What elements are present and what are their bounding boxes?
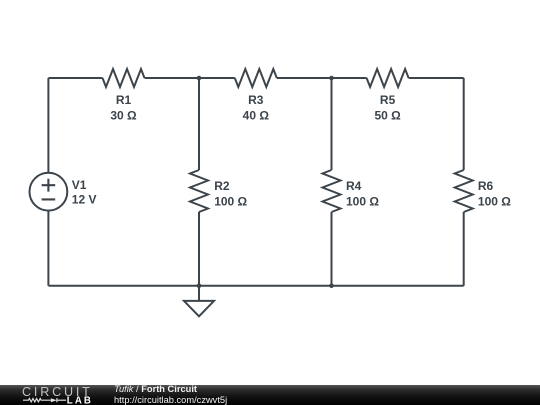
wire R6 top lead xyxy=(463,78,465,170)
resistor R5 xyxy=(367,69,409,87)
resistor R3 xyxy=(235,69,277,87)
svg-text:100 Ω: 100 Ω xyxy=(478,195,511,209)
svg-text:50 Ω: 50 Ω xyxy=(374,109,401,123)
svg-text:100 Ω: 100 Ω xyxy=(346,195,379,209)
ground xyxy=(184,286,214,317)
svg-text:40 Ω: 40 Ω xyxy=(243,109,270,123)
wire R2 top lead xyxy=(198,78,200,170)
wire top rail: R5 to right corner xyxy=(409,77,464,79)
wire R4 bottom lead xyxy=(331,212,333,286)
voltage source V1 xyxy=(30,173,68,211)
CircuitLab logo xyxy=(0,384,100,405)
svg-text:LAB: LAB xyxy=(67,396,93,405)
wire top rail: left node to R1 xyxy=(48,77,102,79)
node junction dot top R2 xyxy=(197,76,202,81)
wire left rail upper xyxy=(47,78,49,173)
resistor R4 xyxy=(323,170,341,212)
svg-text:R2: R2 xyxy=(214,179,230,193)
resistor R6 xyxy=(455,170,473,212)
svg-text:100 Ω: 100 Ω xyxy=(214,195,247,209)
wire R4 top lead xyxy=(331,78,333,170)
node junction dot bottom R2/ground xyxy=(197,283,202,288)
footer attribution text xyxy=(114,384,197,394)
svg-text:12 V: 12 V xyxy=(72,193,97,207)
wire bottom rail xyxy=(48,285,463,287)
wire top rail: R3 to R5 xyxy=(277,77,367,79)
resistor R2 xyxy=(190,170,208,212)
node junction dot top R4 xyxy=(329,76,334,81)
svg-text:R5: R5 xyxy=(380,93,396,107)
svg-text:R1: R1 xyxy=(116,93,132,107)
svg-text:V1: V1 xyxy=(72,178,87,192)
wire left rail lower xyxy=(47,211,49,286)
svg-text:30 Ω: 30 Ω xyxy=(110,109,137,123)
svg-text:R6: R6 xyxy=(478,179,494,193)
svg-text:R4: R4 xyxy=(346,179,362,193)
wire R2 bottom lead xyxy=(198,212,200,286)
footer bar xyxy=(0,385,540,405)
svg-text:R3: R3 xyxy=(248,93,264,107)
wire top rail: R1 to R3 xyxy=(145,77,235,79)
wire R6 bottom lead xyxy=(463,212,465,286)
resistor R1 xyxy=(103,69,145,87)
node junction dot bottom R4 xyxy=(329,283,334,288)
